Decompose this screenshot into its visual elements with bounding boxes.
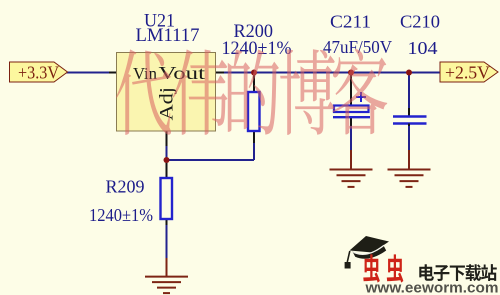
svg-text:www.eeworm.com: www.eeworm.com [364,280,498,295]
pin Vin (U21 pin 3) [109,72,117,74]
svg-text:C210: C210 [400,12,440,32]
wire C210 top [408,73,410,109]
pin R200 top [253,73,255,93]
capacitor C211 positive plate [334,106,369,113]
capacitor C211 negative plate [333,116,370,118]
svg-text:1240±1%: 1240±1% [222,39,292,59]
plus sign C211 [356,92,366,102]
junction node Adj/R209/R200 [164,157,170,163]
wire vertical R200 bottom [253,142,255,160]
wire horizontal from Adj junction to R200 bottom [166,159,255,161]
wire Vout net from U21 to +2.5V flag [224,72,441,74]
capacitor C210 top plate [393,115,427,118]
ground symbol under C210 [388,169,431,171]
pin Vout (U21 pin 2) [215,72,224,74]
ground symbol under C211 [330,169,373,171]
pin R209 bottom [166,220,168,225]
power port +3.3V flag [10,62,68,83]
junction node C210/Vout [406,70,412,76]
logo tassel cord [347,251,350,262]
pin Adj (U21 pin 1) below box [166,131,168,146]
logo graduation cap white stripe [353,245,384,254]
watermark text dai wei de bo ke [116,49,387,135]
ground symbol under R209 [145,276,188,278]
wire from +3.3V flag to U21 Vin [66,72,109,74]
svg-text:104: 104 [408,38,438,58]
logo text chong 1 [363,254,403,282]
logo tassel knob [345,262,351,269]
svg-text:LM1117: LM1117 [136,26,200,46]
power port +2.5V flag [440,62,498,83]
logo graduation cap board [350,236,390,253]
wire Adj pin to junction [166,146,168,160]
pin C210 bottom plate stub [408,124,410,127]
resistor R200 body [248,92,260,131]
logo text dian zi xia zai zhan [419,264,496,281]
capacitor C210 bottom plate [393,122,427,125]
pin name Adj (rotated) [157,87,178,121]
ground stem R209 [166,258,168,277]
svg-text:Adj: Adj [157,87,178,121]
svg-text:R209: R209 [106,177,145,197]
wire R209 to ground [166,225,168,258]
wire C211 to ground [350,126,352,150]
pin C210 top plate [408,108,410,116]
junction node C211/Vout [348,70,354,76]
logo graduation cap crown [353,246,387,259]
junction node R200/Vout [251,70,257,76]
svg-text:+3.3V: +3.3V [18,63,59,83]
svg-text:C211: C211 [330,12,371,32]
pin C211 top [350,73,352,106]
ground stem C211 [350,150,352,170]
pin C211 bottom [350,118,352,126]
svg-text:1240±1%: 1240±1% [89,205,153,225]
svg-text:+2.5V: +2.5V [445,63,490,83]
ground stem C210 [408,150,410,170]
pin R200 bottom [253,131,255,143]
resistor R209 body [161,178,173,219]
pin R209 top [166,160,168,178]
wire C210 bottom to ground [408,125,410,151]
regulator U21 LM1117 body [117,53,216,132]
